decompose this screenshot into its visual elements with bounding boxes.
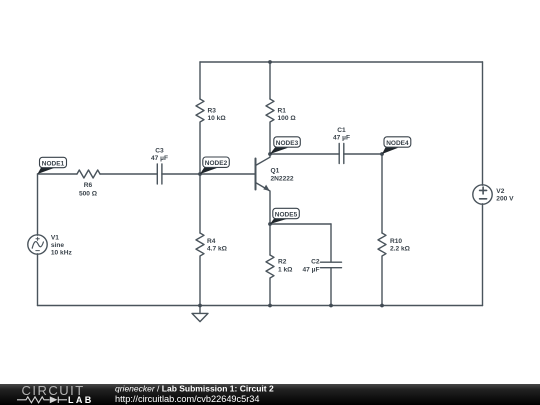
svg-text:R2: R2	[278, 259, 287, 266]
svg-text:NODE2: NODE2	[205, 160, 228, 167]
svg-text:V2: V2	[496, 188, 504, 195]
svg-text:V1: V1	[51, 235, 59, 242]
svg-text:NODE4: NODE4	[386, 140, 409, 147]
svg-text:R10: R10	[390, 238, 402, 245]
svg-text:4.7 kΩ: 4.7 kΩ	[207, 246, 228, 253]
svg-text:2N2222: 2N2222	[271, 176, 294, 183]
svg-text:R6: R6	[84, 182, 93, 189]
svg-text:C1: C1	[337, 127, 346, 134]
svg-text:Q1: Q1	[271, 168, 280, 175]
svg-text:1 kΩ: 1 kΩ	[278, 266, 293, 273]
svg-text:10 kΩ: 10 kΩ	[208, 115, 227, 122]
svg-text:100 Ω: 100 Ω	[278, 115, 297, 122]
svg-text:200 V: 200 V	[496, 195, 514, 202]
svg-text:500 Ω: 500 Ω	[79, 191, 98, 198]
svg-text:NODE5: NODE5	[275, 211, 298, 218]
svg-text:C3: C3	[155, 148, 164, 155]
svg-text:47 µF: 47 µF	[333, 135, 350, 142]
svg-text:R1: R1	[278, 108, 287, 115]
svg-text:C2: C2	[311, 259, 320, 266]
svg-text:qrienecker / Lab Submission 1:: qrienecker / Lab Submission 1: Circuit 2	[115, 383, 274, 393]
svg-text:10 kHz: 10 kHz	[51, 249, 73, 256]
svg-text:NODE1: NODE1	[42, 160, 65, 167]
svg-text:http://circuitlab.com/cvb22649: http://circuitlab.com/cvb22649c5r34	[115, 394, 260, 404]
svg-text:R4: R4	[207, 238, 216, 245]
svg-text:LAB: LAB	[68, 395, 94, 405]
svg-text:R3: R3	[208, 108, 217, 115]
svg-text:47 µF: 47 µF	[151, 155, 168, 162]
svg-text:47 µF: 47 µF	[303, 266, 320, 273]
svg-text:sine: sine	[51, 242, 65, 249]
svg-text:2.2 kΩ: 2.2 kΩ	[390, 246, 411, 253]
svg-text:NODE3: NODE3	[276, 140, 299, 147]
